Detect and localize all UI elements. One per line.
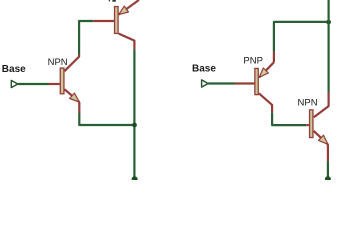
transistor Q3 base bar (PNP) — [255, 68, 258, 94]
Q2 collector lead (diagonal down-right then vertical) — [119, 34, 135, 50]
input port triangle (left Base) — [11, 80, 17, 87]
Q4 emitter lead (diagonal down-right) — [314, 131, 328, 144]
Q3 emitter lead vertical (red) — [273, 52, 275, 63]
Q4 collector lead (red vertical + diagonal down-left to bar) — [314, 92, 329, 117]
wire: Q3 emitter up and right to rail (green) — [274, 22, 329, 52]
input port triangle (right Base) — [202, 80, 209, 87]
wire: Base to Q3 base (green) — [208, 82, 234, 84]
svg-text:PNP: PNP — [243, 55, 263, 66]
transistor Q4 base bar (NPN) — [310, 110, 313, 138]
junction node (right rail top) — [326, 20, 331, 25]
Q2 base lead (red) — [93, 20, 114, 22]
Q2 emitter lead (diagonal up-right, off top edge) — [119, 0, 139, 15]
Q3 emitter lead (diagonal up-right) — [259, 62, 274, 77]
junction node (left rail / emitter wire) — [132, 123, 137, 128]
junction node (right rail bottom, cropped) — [325, 176, 331, 182]
Q2 emitter arrow (points into bar: PNP) — [119, 6, 129, 15]
svg-text:Base: Base — [192, 64, 216, 75]
Q1 emitter arrow (points away: NPN) — [70, 93, 80, 102]
Q3 emitter arrow (points into bar: PNP) — [259, 68, 268, 77]
Q1 emitter lead continues down (red) — [78, 102, 80, 113]
Q3 collector lead (diagonal down-right then vertical) — [259, 93, 272, 112]
svg-text:Base: Base — [2, 64, 26, 75]
Q1 collector lead (diagonal up-right) — [64, 54, 79, 71]
Q4 base lead (red) — [306, 124, 309, 126]
transistor Q2 base bar (PNP, top) — [115, 7, 119, 34]
wire: Q4 emitter down to bottom (green) — [327, 161, 329, 179]
Q3 base lead (red) — [235, 82, 255, 84]
wire: left output rail (green vertical) — [133, 49, 135, 179]
wire: right rail from top edge down (green) — [328, 0, 330, 92]
wire: Base to Q1 base (green part) — [18, 83, 49, 85]
svg-text:NPN: NPN — [48, 57, 68, 68]
Q4 emitter arrow (points away: NPN) — [319, 135, 328, 144]
transistor Q1 base bar — [60, 68, 64, 94]
svg-text:NPN: NPN — [298, 97, 318, 108]
Q1 emitter lead (diagonal down-right) — [64, 89, 79, 102]
wire: Q3 collector to Q4 base (green) — [272, 112, 306, 125]
junction node (left rail bottom, cropped) — [132, 176, 138, 182]
wire: Q1 collector up to Q2 base (green) — [79, 21, 93, 54]
Q4 emitter lead vertical (red) — [327, 144, 329, 161]
Q1 base lead (red part) — [49, 83, 60, 85]
wire: Q1 emitter to rail (green) — [79, 113, 134, 125]
label PNP (Q2, cropped at top edge) — [109, 0, 110, 1]
